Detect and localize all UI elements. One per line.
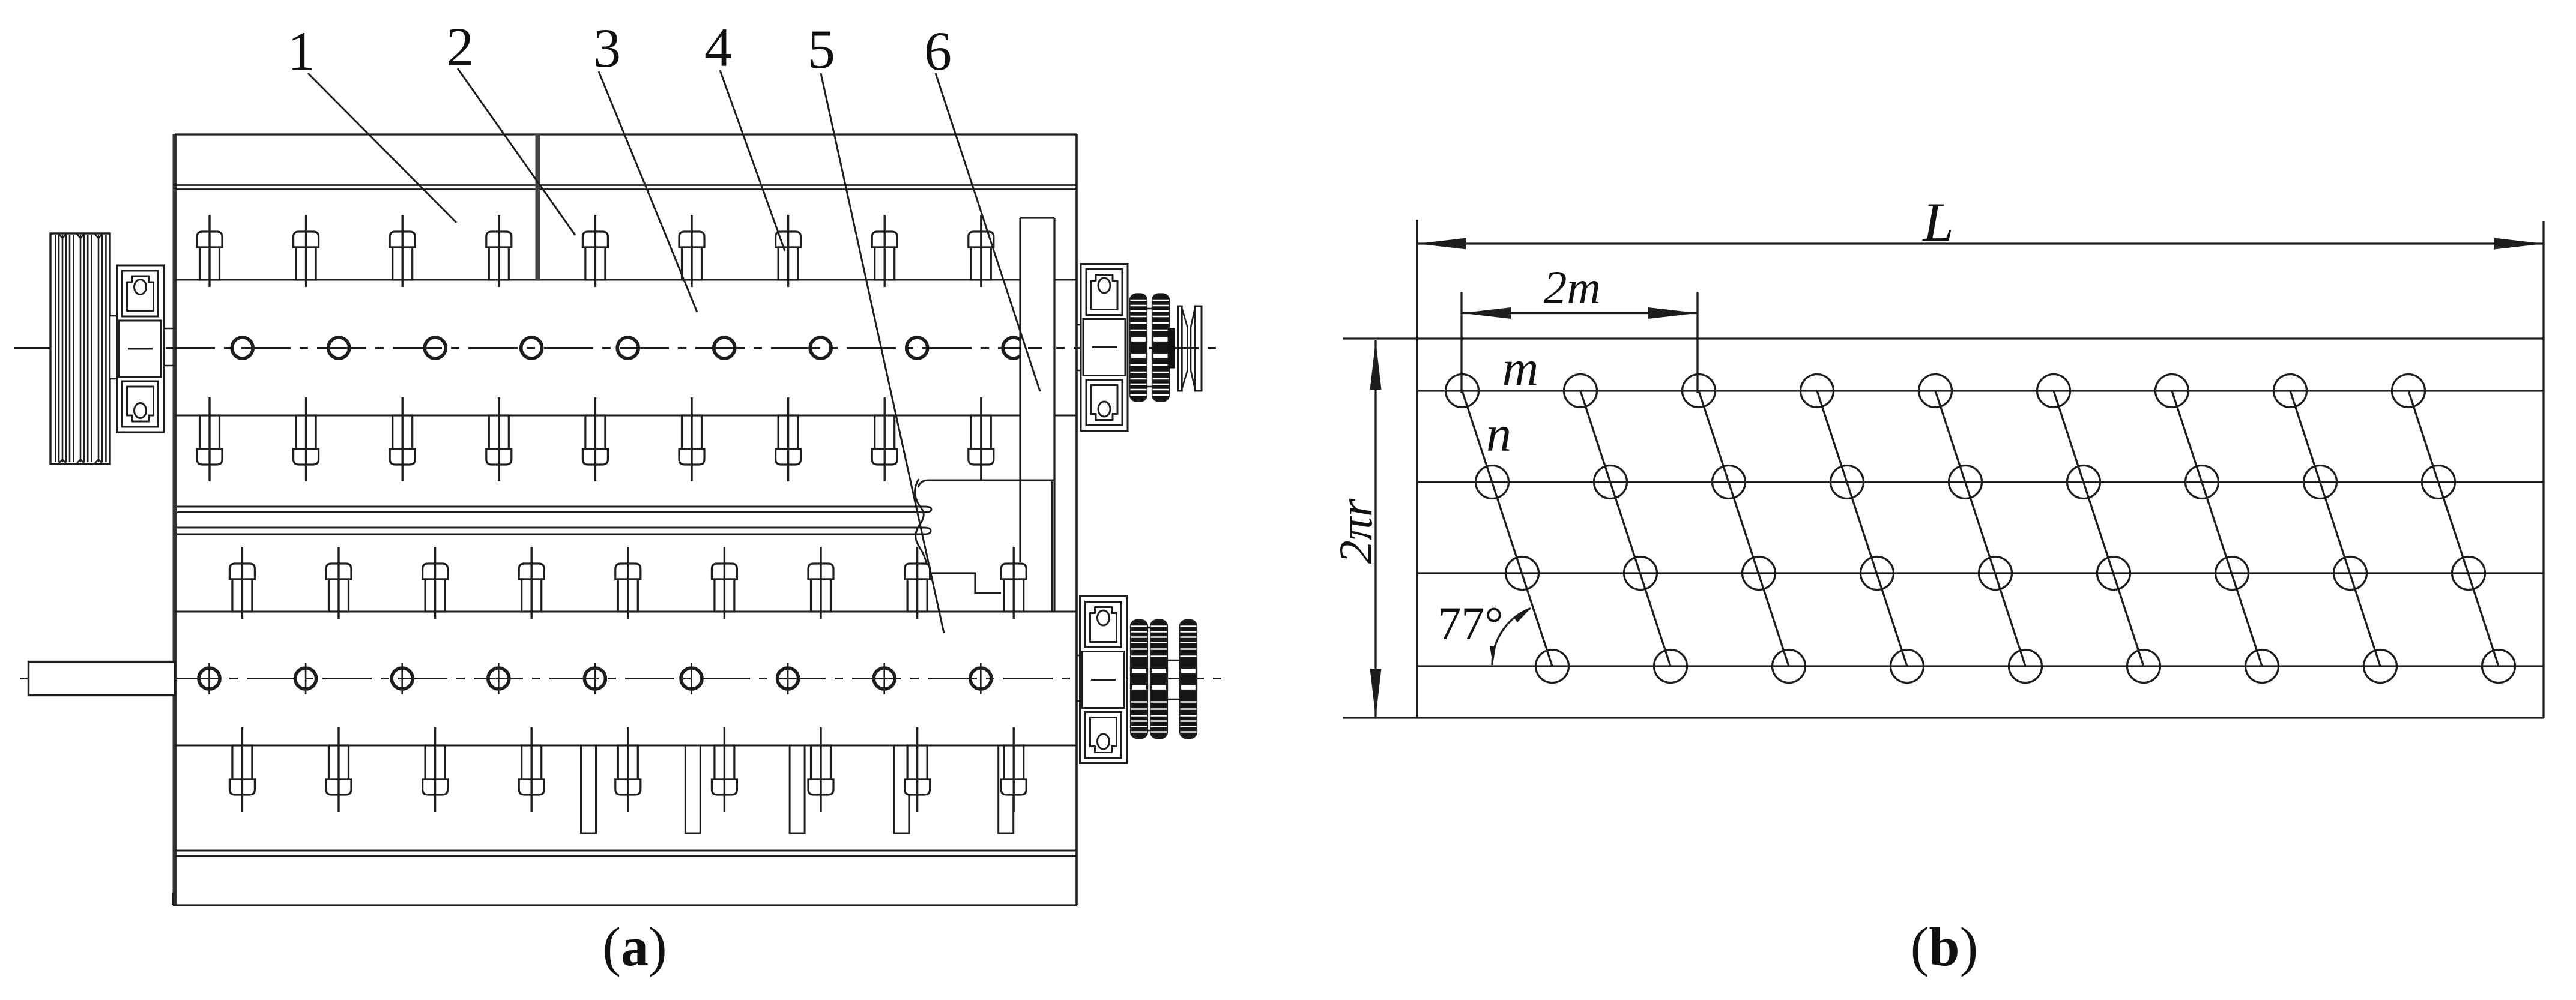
svg-text:2πr: 2πr — [1329, 498, 1382, 564]
svg-text:6: 6 — [924, 20, 952, 82]
svg-text:m: m — [1502, 340, 1539, 396]
svg-text:L: L — [1921, 191, 1953, 253]
svg-text:3: 3 — [593, 17, 621, 79]
svg-text:4: 4 — [704, 17, 732, 78]
svg-text:1: 1 — [288, 20, 315, 82]
svg-text:n: n — [1486, 406, 1511, 462]
svg-text:5: 5 — [808, 19, 835, 80]
svg-text:(b): (b) — [1911, 916, 1978, 977]
svg-text:(a): (a) — [602, 916, 667, 977]
svg-text:2m: 2m — [1543, 261, 1600, 313]
svg-text:2: 2 — [446, 16, 474, 77]
svg-text:77°: 77° — [1438, 597, 1503, 649]
